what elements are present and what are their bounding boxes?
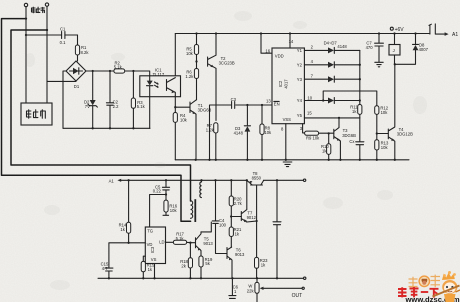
svg-text:Y3: Y3 [297, 77, 303, 82]
svg-text:16: 16 [265, 48, 270, 53]
svg-text:8550: 8550 [252, 175, 262, 180]
svg-text:D4~D7: D4~D7 [324, 40, 338, 45]
svg-text:C1: C1 [60, 26, 66, 31]
svg-text:10k: 10k [264, 130, 272, 135]
svg-text:4007: 4007 [419, 47, 429, 52]
svg-text:IC3: IC3 [150, 246, 155, 253]
svg-text:VDD: VDD [275, 54, 284, 59]
svg-text:470: 470 [366, 45, 374, 50]
svg-text:VD: VD [147, 242, 153, 247]
svg-text:10k: 10k [381, 145, 389, 150]
svg-text:7V: 7V [85, 104, 90, 109]
svg-text:10: 10 [307, 95, 312, 100]
svg-text:5.1k: 5.1k [137, 104, 146, 109]
svg-text:100: 100 [219, 222, 227, 227]
svg-text:A1: A1 [109, 179, 115, 184]
svg-text:1.2k: 1.2k [206, 128, 215, 133]
svg-text:VS: VS [151, 257, 157, 262]
svg-text:10k: 10k [381, 110, 389, 115]
svg-text:VSS: VSS [283, 117, 292, 122]
svg-text:TL117: TL117 [153, 72, 165, 77]
svg-text:TG: TG [147, 229, 153, 234]
svg-text:Y2: Y2 [297, 62, 303, 67]
svg-text:1.2k: 1.2k [185, 74, 194, 79]
svg-text:3DG6B: 3DG6B [198, 108, 212, 113]
svg-text:3CG23B: 3CG23B [219, 61, 235, 66]
svg-text:5.1k: 5.1k [176, 236, 185, 241]
svg-text:10k: 10k [180, 117, 188, 122]
svg-text:4017: 4017 [284, 79, 289, 89]
svg-text:9013: 9013 [203, 241, 213, 246]
svg-text:9012: 9012 [247, 215, 257, 220]
svg-text:R9 10k: R9 10k [306, 135, 320, 140]
svg-text:3DG12B: 3DG12B [397, 132, 413, 137]
svg-text:A1: A1 [452, 32, 458, 38]
svg-text:J: J [393, 48, 395, 53]
svg-text:14: 14 [289, 39, 294, 44]
svg-text:2.7k: 2.7k [234, 201, 243, 206]
svg-text:5.1k: 5.1k [114, 65, 123, 70]
svg-text:2.2: 2.2 [113, 104, 119, 109]
svg-text:0.1: 0.1 [60, 40, 66, 45]
svg-text:D1: D1 [74, 84, 80, 89]
svg-text:Y5: Y5 [297, 113, 303, 118]
svg-text:+6V: +6V [395, 27, 405, 33]
svg-text:13: 13 [266, 99, 271, 104]
svg-text:4148: 4148 [234, 130, 244, 135]
svg-text:3DG6B: 3DG6B [342, 133, 356, 138]
svg-text:15: 15 [307, 111, 312, 116]
svg-text:Y1: Y1 [297, 48, 303, 53]
svg-text:4148: 4148 [337, 44, 347, 49]
svg-text:EN: EN [274, 102, 280, 107]
svg-text:LD: LD [159, 240, 164, 245]
svg-text:Y4: Y4 [297, 98, 303, 103]
svg-text:0.22: 0.22 [153, 188, 162, 193]
svg-text:IC2: IC2 [278, 80, 283, 87]
svg-text:9013: 9013 [235, 252, 245, 257]
svg-text:8.2k: 8.2k [81, 50, 90, 55]
svg-text:Cx: Cx [349, 139, 355, 144]
svg-text:22k: 22k [247, 288, 255, 293]
svg-text:C3: C3 [231, 97, 237, 102]
svg-text:10k: 10k [170, 208, 178, 213]
svg-text:OUT: OUT [292, 293, 303, 299]
svg-text:10k: 10k [186, 51, 194, 56]
svg-text:4.7: 4.7 [102, 266, 108, 271]
